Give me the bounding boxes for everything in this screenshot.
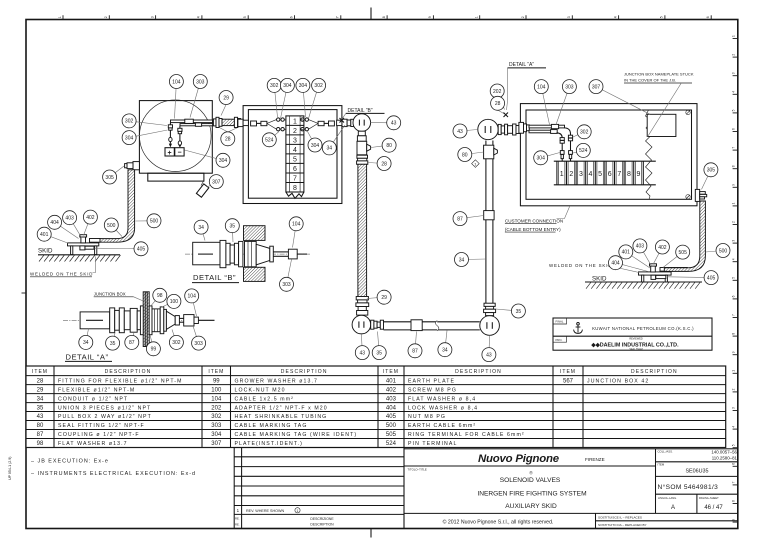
svg-text:6: 6 bbox=[608, 171, 612, 178]
svg-text:LOCK-NUT M20: LOCK-NUT M20 bbox=[235, 387, 286, 393]
svg-text:46 / 47: 46 / 47 bbox=[704, 505, 723, 511]
svg-text:302: 302 bbox=[270, 83, 279, 89]
svg-text:4: 4 bbox=[197, 16, 201, 18]
callout 524 bbox=[573, 143, 590, 157]
DETAIL A centerline bbox=[63, 319, 215, 321]
svg-text:PIN TERMINAL: PIN TERMINAL bbox=[408, 441, 457, 447]
wire path from right entry bbox=[301, 118, 335, 131]
svg-text:99: 99 bbox=[151, 347, 157, 353]
svg-text:28: 28 bbox=[37, 378, 44, 384]
svg-text:80: 80 bbox=[386, 143, 392, 149]
cable 104 lower inside big JB bbox=[529, 130, 557, 133]
svg-text:1: 1 bbox=[732, 202, 736, 204]
svg-text:7: 7 bbox=[732, 481, 736, 483]
callout 304 bbox=[280, 78, 294, 118]
terminal box plus bbox=[165, 148, 174, 157]
callout 43 bbox=[355, 334, 369, 360]
svg-text:GROWER WASHER ø13.7: GROWER WASHER ø13.7 bbox=[235, 378, 319, 384]
callout 305 bbox=[702, 163, 718, 190]
svg-text:DETAIL “B”: DETAIL “B” bbox=[193, 273, 236, 282]
svg-text:ADAPTER 1/2” NPT-F x M20: ADAPTER 1/2” NPT-F x M20 bbox=[235, 405, 328, 411]
cable marking tag 303 upper bbox=[185, 119, 194, 123]
svg-text:401: 401 bbox=[40, 232, 49, 238]
adapter rings 28 (center run) bbox=[357, 155, 368, 164]
svg-text:304: 304 bbox=[311, 143, 320, 149]
svg-text:REVIEWED: REVIEWED bbox=[629, 338, 643, 341]
svg-text:4: 4 bbox=[293, 147, 297, 154]
svg-text:FINAL: FINAL bbox=[556, 320, 564, 324]
svg-text:303: 303 bbox=[565, 84, 574, 90]
svg-text:SKID: SKID bbox=[38, 248, 53, 255]
svg-text:NUT M8 PG: NUT M8 PG bbox=[408, 414, 446, 420]
svg-text:SOSTITUITO DA – REPLACED BY: SOSTITUITO DA – REPLACED BY bbox=[598, 523, 647, 527]
svg-text:INERGEN FIRE FIGHTING SYSTEM: INERGEN FIRE FIGHTING SYSTEM bbox=[477, 491, 586, 498]
svg-text:305: 305 bbox=[105, 175, 114, 181]
svg-text:302: 302 bbox=[314, 83, 323, 89]
svg-text:2: 2 bbox=[104, 16, 108, 18]
svg-text:304: 304 bbox=[537, 156, 546, 162]
right info cells bbox=[656, 461, 738, 463]
svg-text:8: 8 bbox=[293, 185, 297, 192]
callout 405 bbox=[667, 271, 718, 285]
svg-text:87: 87 bbox=[37, 432, 44, 438]
callout 302 bbox=[573, 125, 591, 139]
svg-text:8: 8 bbox=[732, 165, 736, 167]
skid ground line + hatching right bbox=[585, 282, 702, 289]
callout 304 bbox=[296, 78, 310, 117]
coupling 87 (right run) bbox=[484, 211, 494, 220]
svg-text:RE.: RE. bbox=[235, 517, 240, 521]
callout 28 bbox=[368, 157, 391, 171]
svg-text:99: 99 bbox=[213, 378, 220, 384]
middle JB left entry gland bbox=[238, 119, 249, 126]
svg-text:ITEM: ITEM bbox=[560, 369, 576, 375]
svg-text:5: 5 bbox=[732, 109, 736, 111]
svg-text:7: 7 bbox=[293, 176, 297, 183]
svg-text:35: 35 bbox=[516, 309, 522, 315]
svg-text:5: 5 bbox=[243, 16, 247, 18]
terminal strip vertical bbox=[286, 116, 304, 198]
big junction box outer wall bbox=[520, 104, 697, 206]
svg-text:401: 401 bbox=[386, 378, 397, 384]
svg-text:98: 98 bbox=[157, 293, 163, 299]
callout 34 bbox=[322, 125, 345, 155]
svg-text:7: 7 bbox=[617, 171, 621, 178]
svg-text:500: 500 bbox=[719, 248, 728, 254]
svg-text:FITTING FOR FLEXIBLE ø1/2” NPT: FITTING FOR FLEXIBLE ø1/2” NPT-M bbox=[58, 378, 183, 384]
svg-text:PAGINA–SHEET: PAGINA–SHEET bbox=[699, 496, 719, 500]
svg-text:2: 2 bbox=[521, 16, 525, 18]
svg-text:402: 402 bbox=[658, 245, 667, 251]
svg-text:6: 6 bbox=[293, 166, 297, 173]
svg-text:HEAT SHRINKABLE TUBING: HEAT SHRINKABLE TUBING bbox=[235, 414, 328, 420]
svg-text:FLAT WASHER ø 8,4: FLAT WASHER ø 8,4 bbox=[408, 396, 476, 402]
callout 35 bbox=[225, 219, 239, 242]
cable marking tag 303 lower (big JB) bbox=[551, 130, 558, 134]
svg-text:1: 1 bbox=[732, 370, 736, 372]
earth bolt right bbox=[651, 266, 656, 272]
callout 104 bbox=[534, 80, 549, 125]
svg-text:5: 5 bbox=[660, 16, 664, 18]
svg-text:304: 304 bbox=[299, 83, 308, 89]
svg-text:104: 104 bbox=[537, 84, 546, 90]
callout 303 bbox=[190, 75, 207, 118]
callout 304 bbox=[185, 150, 231, 167]
svg-text:1: 1 bbox=[560, 171, 564, 178]
customer stamp box bbox=[553, 318, 712, 351]
svg-text:(CABLE BOTTOM ENTRY): (CABLE BOTTOM ENTRY) bbox=[505, 227, 561, 232]
revision table bbox=[234, 448, 404, 529]
svg-text:307: 307 bbox=[211, 441, 222, 447]
svg-text:104: 104 bbox=[172, 79, 181, 85]
DETAIL B centerline bbox=[185, 253, 310, 255]
svg-text:307: 307 bbox=[212, 179, 221, 185]
svg-text:35: 35 bbox=[230, 224, 236, 230]
flexible earth cable run to skid (hatched) bbox=[100, 170, 135, 242]
svg-text:1: 1 bbox=[475, 16, 479, 18]
svg-text:– INSTRUMENTS ELECTRICAL EXECU: – INSTRUMENTS ELECTRICAL EXECUTION: Ex-d bbox=[31, 471, 196, 477]
svg-text:5: 5 bbox=[293, 156, 297, 163]
svg-text:404: 404 bbox=[611, 261, 620, 267]
svg-text:4: 4 bbox=[732, 91, 736, 93]
svg-text:405: 405 bbox=[707, 275, 716, 281]
svg-text:524: 524 bbox=[265, 138, 274, 144]
svg-text:3: 3 bbox=[732, 72, 736, 74]
pull box 43 (bottom left) bbox=[352, 315, 371, 334]
svg-text:UNION 3 PIECES ø1/2” NPT: UNION 3 PIECES ø1/2” NPT bbox=[58, 405, 151, 411]
callout 28 bbox=[491, 96, 505, 110]
svg-text:500: 500 bbox=[150, 219, 159, 225]
callout 99 bbox=[146, 335, 160, 356]
callout 34 bbox=[438, 331, 452, 357]
svg-text:DESCRIZIONE: DESCRIZIONE bbox=[310, 517, 334, 521]
svg-text:307: 307 bbox=[592, 84, 601, 90]
callout 401 bbox=[619, 245, 650, 268]
entry gland through big JB wall bbox=[519, 122, 529, 133]
svg-text:304: 304 bbox=[219, 158, 228, 164]
svg-text:CONDUIT ø 1/2” NPT: CONDUIT ø 1/2” NPT bbox=[58, 396, 128, 402]
cover screw top right bbox=[686, 110, 690, 114]
callout 104 bbox=[185, 289, 199, 316]
callout 500 bbox=[136, 214, 162, 228]
svg-text:TITOLO–TITLE: TITOLO–TITLE bbox=[408, 467, 427, 471]
callout 404 bbox=[48, 215, 79, 238]
svg-text:EARTH CABLE 6mm²: EARTH CABLE 6mm² bbox=[408, 423, 476, 429]
callout 403 bbox=[633, 239, 652, 266]
svg-text:9: 9 bbox=[637, 171, 641, 178]
callout 100 bbox=[162, 294, 181, 308]
skid ground line + hatching left bbox=[38, 255, 121, 262]
svg-text:403: 403 bbox=[636, 244, 645, 250]
svg-text:DESCRIPTION: DESCRIPTION bbox=[310, 522, 334, 526]
svg-text:3: 3 bbox=[579, 171, 583, 178]
callout 401 bbox=[37, 227, 69, 243]
svg-text:SOLENOID VALVES: SOLENOID VALVES bbox=[500, 477, 561, 484]
svg-text:404: 404 bbox=[50, 220, 59, 226]
svg-text:87: 87 bbox=[457, 216, 463, 222]
callout 303 bbox=[280, 260, 294, 292]
pipe break squiggle bbox=[436, 321, 439, 331]
svg-text:2: 2 bbox=[732, 54, 736, 56]
svg-text:2: 2 bbox=[732, 388, 736, 390]
svg-text:100: 100 bbox=[211, 387, 222, 393]
earth plate 401 left bbox=[68, 243, 99, 246]
svg-text:FIRENZE: FIRENZE bbox=[585, 457, 605, 462]
pull box 43 (2-way, top center) bbox=[353, 114, 371, 132]
svg-text:202: 202 bbox=[493, 89, 502, 95]
svg-text:DETAIL “A”: DETAIL “A” bbox=[66, 352, 109, 361]
callout 302 bbox=[267, 78, 281, 117]
callout 29 bbox=[219, 91, 233, 105]
DETAIL B conduit pipe 34 bbox=[193, 242, 220, 264]
svg-text:6: 6 bbox=[732, 295, 736, 297]
left edge tick bbox=[22, 292, 27, 294]
callout 87 bbox=[408, 332, 422, 358]
svg-text:N°SOM 5464981/3: N°SOM 5464981/3 bbox=[658, 483, 719, 491]
svg-text:140.0057–56: 140.0057–56 bbox=[711, 450, 737, 455]
svg-text:1: 1 bbox=[732, 35, 736, 37]
enclosure pedestal bbox=[148, 173, 204, 181]
svg-text:ITEM: ITEM bbox=[32, 369, 48, 375]
solenoid lead right (tags + pin terminal) bbox=[178, 126, 182, 148]
callout 104 bbox=[169, 75, 183, 119]
detail circle bbox=[140, 100, 212, 172]
svg-text:1: 1 bbox=[297, 509, 299, 513]
svg-text:Nuovo Pignone: Nuovo Pignone bbox=[478, 453, 560, 465]
DETAIL A union 35 bbox=[110, 308, 131, 333]
svg-text:28: 28 bbox=[381, 161, 387, 167]
svg-text:6: 6 bbox=[289, 16, 293, 18]
svg-text:REV. WHERE SHOWN: REV. WHERE SHOWN bbox=[246, 509, 285, 513]
svg-text:JUNCTION BOX: JUNCTION BOX bbox=[94, 291, 126, 296]
svg-text:6: 6 bbox=[732, 463, 736, 465]
DETAIL A junction box note bbox=[94, 291, 144, 301]
svg-text:29: 29 bbox=[381, 295, 387, 301]
callout 35 bbox=[496, 304, 526, 318]
DETAIL A junction box wall (hatched) bbox=[143, 292, 149, 347]
svg-text:104: 104 bbox=[188, 294, 197, 300]
DETAIL A gland body with lock-nut 100 bbox=[152, 307, 166, 334]
svg-text:7: 7 bbox=[732, 314, 736, 316]
svg-text:202: 202 bbox=[211, 405, 222, 411]
pull box 43 (bottom right) bbox=[480, 316, 500, 336]
svg-text:4: 4 bbox=[732, 426, 736, 428]
svg-text:402: 402 bbox=[386, 387, 397, 393]
svg-text:405: 405 bbox=[386, 414, 397, 420]
svg-text:505: 505 bbox=[679, 250, 688, 256]
callout 303 bbox=[192, 326, 206, 350]
svg-text:RING TERMINAL FOR CABLE 6mm²: RING TERMINAL FOR CABLE 6mm² bbox=[408, 432, 525, 438]
svg-text:1: 1 bbox=[58, 16, 62, 18]
svg-text:110.2580–81: 110.2580–81 bbox=[712, 456, 738, 461]
svg-text:35: 35 bbox=[110, 341, 116, 347]
cable marking tag 303 upper (big JB) bbox=[551, 124, 558, 128]
svg-text:302: 302 bbox=[172, 340, 181, 346]
solenoid lead left (tags + pin terminal) bbox=[168, 123, 172, 148]
svg-text:29: 29 bbox=[37, 387, 44, 393]
DETAIL B cable + gland bbox=[270, 246, 307, 262]
svg-text:PULL BOX 2 WAY ø1/2” NPT: PULL BOX 2 WAY ø1/2” NPT bbox=[58, 414, 152, 420]
svg-text:RE.: RE. bbox=[235, 523, 240, 527]
svg-text:5: 5 bbox=[732, 444, 736, 446]
right ruler ticks bbox=[732, 35, 738, 522]
svg-text:2: 2 bbox=[569, 171, 573, 178]
svg-text:ITEM: ITEM bbox=[208, 369, 224, 375]
svg-text:35: 35 bbox=[37, 405, 44, 411]
DETAIL B union 35 bbox=[220, 240, 243, 267]
big junction box inner wall bbox=[526, 110, 692, 199]
callout 304 bbox=[308, 132, 323, 153]
revision diamond 1 bbox=[472, 160, 480, 168]
solenoid valve enclosure box bbox=[139, 101, 212, 174]
callout 405 bbox=[95, 242, 149, 256]
svg-text:COUPLING ø 1/2” NPT-F: COUPLING ø 1/2” NPT-F bbox=[58, 432, 140, 438]
DETAIL B title bbox=[192, 273, 239, 282]
svg-text:3: 3 bbox=[732, 407, 736, 409]
DETAIL B gland body bbox=[245, 241, 257, 266]
svg-text:CABLE MARKING TAG (WIRE IDENT): CABLE MARKING TAG (WIRE IDENT) bbox=[235, 432, 358, 438]
callout 87 bbox=[453, 212, 484, 226]
pull box 43 (top right, JB entry) bbox=[478, 119, 498, 139]
torn break wavy line inside big JB bbox=[646, 110, 653, 199]
svg-text:34: 34 bbox=[37, 396, 44, 402]
svg-text:505: 505 bbox=[386, 432, 397, 438]
cable 104 lower inside solenoid box bbox=[180, 124, 213, 126]
cable marking tag 303 lower bbox=[195, 123, 201, 126]
svg-text:7: 7 bbox=[336, 16, 340, 18]
earth cable gland right side of big JB bbox=[695, 189, 706, 201]
svg-text:IN THE COVER OF THE J.B.: IN THE COVER OF THE J.B. bbox=[624, 77, 676, 82]
callout 43 bbox=[453, 124, 478, 138]
svg-text:DETAIL “A”: DETAIL “A” bbox=[509, 62, 534, 68]
svg-text:304: 304 bbox=[125, 135, 134, 141]
callout 104 bbox=[289, 217, 303, 248]
union 35 above bottom-right pull box bbox=[484, 303, 496, 315]
instrument tag plate 307 bbox=[196, 181, 208, 197]
earth plate 401 right bbox=[639, 272, 672, 275]
svg-text:PRO·: PRO· bbox=[556, 338, 563, 342]
cover screw bottom right bbox=[686, 195, 690, 199]
callout 43 bbox=[482, 336, 496, 362]
svg-text:34: 34 bbox=[83, 340, 89, 346]
svg-text:8: 8 bbox=[732, 333, 736, 335]
terminal strip horizontal (1-9) bbox=[554, 161, 656, 185]
svg-text:3: 3 bbox=[567, 16, 571, 18]
seal fitting 80 (right run) bbox=[484, 145, 498, 159]
svg-text:CABLE 1x2.5 mm²: CABLE 1x2.5 mm² bbox=[235, 396, 294, 402]
svg-text:LINGUA–LANG.: LINGUA–LANG. bbox=[658, 496, 677, 500]
plate legs right bbox=[642, 275, 644, 282]
svg-text:28: 28 bbox=[495, 101, 501, 107]
svg-text:9: 9 bbox=[732, 351, 736, 353]
wire drop 1 bbox=[557, 133, 565, 161]
DETAIL A pointer label (top) bbox=[507, 62, 547, 110]
callout 304 bbox=[122, 130, 167, 145]
callout 43 bbox=[371, 116, 401, 130]
svg-text:SOSTITUISCE IL – REPLACES: SOSTITUISCE IL – REPLACES bbox=[598, 516, 642, 520]
union 35 at left pull box bbox=[371, 320, 384, 329]
svg-text:FLEXIBLE ø1/2” NPT-M: FLEXIBLE ø1/2” NPT-M bbox=[58, 387, 135, 393]
svg-text:8: 8 bbox=[732, 500, 736, 502]
DETAIL B pull box wall (hatched blocks) bbox=[244, 226, 266, 241]
svg-text:303: 303 bbox=[282, 282, 291, 288]
svg-text:SKID: SKID bbox=[592, 275, 607, 282]
svg-text:302: 302 bbox=[125, 119, 134, 125]
callout 500 bbox=[706, 244, 730, 258]
svg-text:87: 87 bbox=[129, 340, 135, 346]
svg-text:303: 303 bbox=[211, 423, 222, 429]
svg-text:DESCRIPTION: DESCRIPTION bbox=[105, 369, 152, 375]
junction box nameplate note bbox=[624, 71, 694, 137]
svg-text:34: 34 bbox=[442, 348, 448, 354]
svg-text:© 2012 Nuovo Pignone S.r.l., a: © 2012 Nuovo Pignone S.r.l., all rights … bbox=[443, 518, 554, 525]
middle JB right entry gland bbox=[337, 119, 348, 126]
gland fitting on left side of box bbox=[125, 162, 140, 170]
neck below pull box bbox=[357, 131, 366, 141]
bottom fittings of flexible run bbox=[356, 297, 369, 316]
title block bbox=[404, 449, 738, 529]
svg-text:34: 34 bbox=[198, 225, 204, 231]
svg-text:403: 403 bbox=[386, 396, 397, 402]
svg-text:43: 43 bbox=[486, 352, 492, 358]
svg-text:WELDED ON THE SKID: WELDED ON THE SKID bbox=[549, 263, 612, 268]
svg-text:ITEM: ITEM bbox=[383, 369, 399, 375]
svg-text:9: 9 bbox=[428, 16, 432, 18]
svg-text:SEAL TEAM: SEAL TEAM bbox=[629, 348, 642, 351]
svg-text:4: 4 bbox=[589, 171, 593, 178]
DETAIL A cone bushing bbox=[166, 311, 175, 329]
svg-text:2: 2 bbox=[293, 128, 297, 135]
DETAIL A step + cable gland bbox=[175, 315, 214, 326]
svg-text:– JB EXECUTION: Ex-e: – JB EXECUTION: Ex-e bbox=[31, 459, 109, 465]
callout 303 bbox=[556, 80, 576, 125]
callout 302 bbox=[169, 330, 183, 350]
svg-text:524: 524 bbox=[579, 148, 588, 154]
X arrow mark at JB entry bbox=[504, 113, 509, 118]
svg-text:FLAT WASHER ø13.7: FLAT WASHER ø13.7 bbox=[58, 441, 128, 447]
svg-text:JUNCTION BOX 42: JUNCTION BOX 42 bbox=[587, 378, 649, 384]
seal fitting 80 (center run) bbox=[357, 141, 371, 155]
svg-text:524: 524 bbox=[386, 441, 397, 447]
replaces rows bbox=[595, 513, 597, 528]
callout 29 bbox=[367, 290, 391, 304]
wire path from left entry bbox=[251, 118, 286, 131]
callout 34 bbox=[79, 329, 93, 350]
callout 304 bbox=[534, 151, 560, 165]
svg-text:404: 404 bbox=[386, 405, 397, 411]
svg-text:9: 9 bbox=[732, 184, 736, 186]
svg-text:ITEM: ITEM bbox=[658, 463, 665, 467]
svg-text:98: 98 bbox=[37, 441, 44, 447]
callout 307 bbox=[589, 80, 650, 115]
callout 505 bbox=[663, 245, 690, 267]
customer connection note bbox=[505, 206, 570, 232]
callout 35 bbox=[106, 333, 120, 350]
svg-text:302: 302 bbox=[580, 130, 589, 136]
svg-text:CABLE MARKING TAG: CABLE MARKING TAG bbox=[235, 423, 308, 429]
svg-text:6: 6 bbox=[732, 128, 736, 130]
svg-text:+: + bbox=[168, 150, 172, 157]
svg-text:567: 567 bbox=[563, 378, 574, 384]
earth cable 500 right (hatched run down to skid) bbox=[660, 268, 687, 272]
svg-text:34: 34 bbox=[459, 257, 465, 263]
callout 28 bbox=[221, 132, 235, 146]
svg-text:43: 43 bbox=[391, 121, 397, 127]
callout 305 bbox=[103, 166, 124, 184]
svg-text:WELDED ON THE SKID: WELDED ON THE SKID bbox=[30, 271, 93, 276]
svg-text:KUWAIT NATIONAL PETROLEUM CO.(: KUWAIT NATIONAL PETROLEUM CO.(K.S.C.) bbox=[592, 326, 694, 331]
parts table bbox=[26, 366, 726, 448]
